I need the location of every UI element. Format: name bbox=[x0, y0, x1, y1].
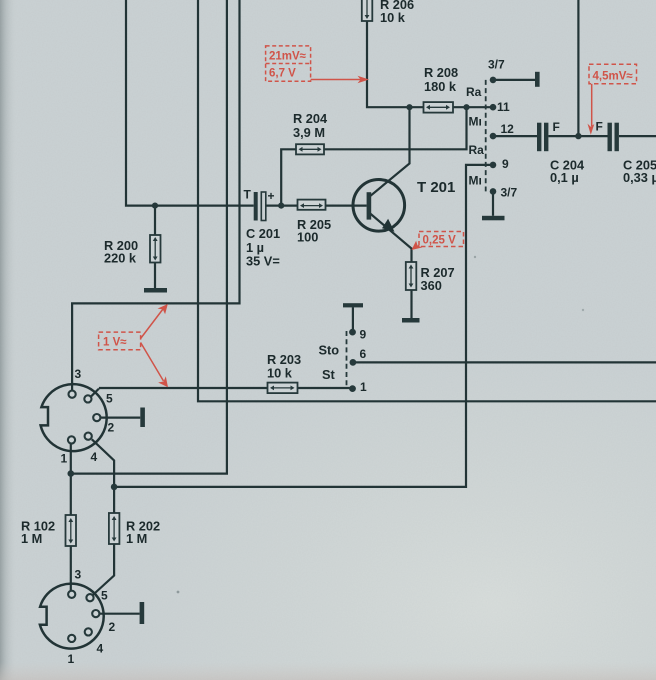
svg-text:5: 5 bbox=[101, 589, 108, 603]
switch S2 dashed actuator line bbox=[346, 331, 348, 389]
wire: switch2 contact 9 to open bar bbox=[352, 307, 354, 332]
svg-text:3/7: 3/7 bbox=[488, 58, 505, 72]
svg-text:100: 100 bbox=[297, 230, 318, 245]
wire: C204 to C205 node bbox=[548, 135, 607, 137]
wire: contact 12 to C204 bbox=[496, 135, 537, 137]
svg-text:180 k: 180 k bbox=[424, 79, 457, 94]
switch S2 contact 9 bbox=[349, 329, 356, 336]
wire: R102 to DIN2 pin3 bbox=[70, 546, 72, 591]
svg-text:2: 2 bbox=[108, 421, 115, 435]
ground (below R200) bbox=[144, 288, 167, 293]
svg-text:35 V=: 35 V= bbox=[246, 254, 280, 269]
switch S1 contact 11 bbox=[490, 104, 497, 111]
svg-text:4: 4 bbox=[97, 642, 104, 656]
svg-text:Mı: Mı bbox=[469, 174, 482, 188]
junction dot (collector node) bbox=[406, 104, 412, 110]
svg-text:12: 12 bbox=[501, 122, 515, 136]
svg-text:R 208: R 208 bbox=[424, 65, 458, 80]
wire: input node down to R200 bbox=[154, 206, 156, 235]
svg-text:R 204: R 204 bbox=[293, 111, 328, 126]
svg-text:21mV≈: 21mV≈ bbox=[269, 51, 307, 63]
wire: R202 to DIN2 pin5 bbox=[93, 544, 114, 595]
svg-text:6,7 V: 6,7 V bbox=[269, 68, 296, 80]
svg-text:T 201: T 201 bbox=[417, 179, 455, 196]
wire: vertical rail to bottom long bus bbox=[198, 0, 656, 401]
DIN connector Bu1 (top) bbox=[41, 384, 107, 451]
svg-text:0,25 V: 0,25 V bbox=[423, 235, 457, 247]
svg-text:Sto: Sto bbox=[319, 343, 340, 358]
svg-text:T: T bbox=[244, 188, 252, 202]
wire: vertical rail to DIN1 pin 3 bbox=[72, 0, 239, 391]
svg-text:6: 6 bbox=[360, 347, 367, 361]
svg-text:3,9 M: 3,9 M bbox=[293, 125, 325, 140]
svg-text:Ra: Ra bbox=[469, 143, 485, 157]
svg-text:9: 9 bbox=[360, 328, 367, 342]
svg-text:2: 2 bbox=[109, 620, 116, 634]
svg-text:1 M: 1 M bbox=[126, 531, 147, 546]
switch S1 contact 9 bbox=[490, 162, 497, 169]
svg-text:9: 9 bbox=[502, 157, 509, 171]
resistor R203 10k bbox=[268, 383, 298, 394]
red measurement 4,5mV with arrow bbox=[589, 64, 637, 126]
wire: R200 to ground bbox=[154, 263, 156, 289]
resistor R200 220k bbox=[150, 235, 161, 263]
switch S2 contact 6 (Sto) bbox=[350, 359, 357, 366]
svg-text:3: 3 bbox=[75, 367, 82, 381]
svg-text:1: 1 bbox=[61, 452, 68, 466]
wire: contact 3/7 bottom to ground bbox=[492, 191, 494, 215]
svg-text:1 V≈: 1 V≈ bbox=[103, 337, 127, 349]
svg-text:0,1 µ: 0,1 µ bbox=[550, 170, 579, 185]
wire: DIN1 pin4 lead to R202 bbox=[92, 439, 114, 513]
ground (below R207) bbox=[402, 318, 420, 323]
svg-text:360: 360 bbox=[421, 278, 442, 293]
chassis bar (DIN1 pin2) bbox=[140, 408, 145, 428]
wire: St contact 1 wire through R203 bbox=[99, 387, 350, 389]
red measurement 1V with arrows bbox=[99, 309, 164, 381]
wire: contact 6 to right edge bbox=[353, 361, 656, 363]
svg-text:C 201: C 201 bbox=[246, 226, 280, 241]
wire: C201 to base through R205 bbox=[265, 205, 366, 207]
junction dot (pin4/R202 node) bbox=[111, 484, 118, 491]
svg-text:10 k: 10 k bbox=[267, 366, 293, 381]
resistor R207 360 bbox=[406, 262, 417, 290]
switch S2 contact 1 (St) bbox=[349, 385, 356, 392]
svg-text:F: F bbox=[596, 120, 603, 134]
svg-text:1: 1 bbox=[360, 380, 367, 394]
svg-text:+: + bbox=[268, 189, 275, 203]
wire: DIN1 pin1 down to R102 bbox=[70, 444, 72, 515]
svg-text:4: 4 bbox=[91, 450, 98, 464]
wire: collector lead bbox=[370, 107, 410, 196]
svg-text:220 k: 220 k bbox=[104, 251, 137, 266]
svg-text:F: F bbox=[553, 120, 560, 134]
switch S1 dashed actuator line bbox=[485, 80, 487, 191]
scan specks bbox=[177, 591, 180, 594]
transistor T201 bbox=[353, 180, 405, 232]
resistor R206 10k bbox=[362, 0, 373, 21]
resistor R202 1M bbox=[109, 513, 120, 544]
svg-text:3/7: 3/7 bbox=[501, 186, 518, 200]
switch S1 contact 3/7 bottom bbox=[490, 188, 497, 195]
wire: R207 to ground bbox=[410, 290, 412, 318]
wire: R204 branch from input node bbox=[281, 149, 296, 205]
resistor R205 100 bbox=[298, 200, 326, 210]
wire: contact 9 down to pin4 node bbox=[117, 165, 490, 487]
DIN connector Bu2 (bottom) bbox=[40, 584, 104, 649]
wire: DIN2 pin2 to chassis bbox=[100, 613, 140, 615]
svg-text:Mı: Mı bbox=[469, 115, 482, 129]
svg-text:3: 3 bbox=[75, 568, 82, 582]
capacitor C201 1u electrolytic bbox=[254, 192, 266, 221]
svg-text:4,5mV≈: 4,5mV≈ bbox=[593, 70, 634, 82]
chassis bar (3/7 top) bbox=[535, 72, 540, 87]
resistor R102 1M bbox=[66, 515, 77, 546]
svg-text:1 M: 1 M bbox=[21, 531, 42, 546]
svg-text:11: 11 bbox=[497, 100, 510, 114]
capacitor C205 0,33u bbox=[608, 123, 619, 152]
red measurement 0,25V with arrow bbox=[416, 232, 464, 248]
resistor R208 180k bbox=[424, 102, 454, 113]
wire: contact 3/7 to chassis bbox=[493, 79, 535, 81]
svg-text:Ra: Ra bbox=[466, 85, 482, 99]
resistor R204 3,9M bbox=[296, 144, 324, 154]
wire: DIN1 pin2 to chassis bbox=[101, 417, 141, 419]
capacitor C204 0,1u bbox=[537, 123, 548, 152]
switch S1 contact 3/7 top bbox=[490, 77, 497, 84]
junction dot (R204/R208 node) bbox=[463, 104, 469, 110]
wire: output rail down to C204/C205 node bbox=[577, 0, 579, 133]
switch S1 contact 12 bbox=[490, 133, 497, 140]
junction dot (C201 input node) bbox=[152, 203, 158, 209]
junction dot (C204/C205 node) bbox=[575, 133, 581, 139]
junction dot (base node) bbox=[278, 203, 284, 209]
wire: R206 to collector node rail bbox=[367, 21, 490, 107]
svg-text:10 k: 10 k bbox=[380, 10, 406, 25]
svg-text:0,33 µ: 0,33 µ bbox=[623, 170, 656, 185]
wire: emitter lead bbox=[370, 213, 412, 262]
svg-text:1: 1 bbox=[68, 652, 75, 666]
open contact bar (above switch S2 contact 9) bbox=[343, 303, 363, 307]
ground (below 3/7) bbox=[482, 216, 505, 221]
chassis bar (DIN2 pin2) bbox=[140, 602, 145, 624]
wire: R204 to collector rail bbox=[324, 107, 467, 149]
junction dot (pin1/R102 node) bbox=[68, 470, 75, 477]
svg-text:5: 5 bbox=[106, 392, 113, 406]
wire: C205 to right edge bbox=[619, 135, 656, 137]
red measurement 21mV / 6,7V with arrow bbox=[266, 46, 362, 81]
wire: supply rail 1 down to C201 input node bbox=[126, 0, 254, 206]
wire: vertical rail to pin1 junction bbox=[71, 0, 227, 474]
svg-text:St: St bbox=[322, 367, 336, 382]
wire: DIN1 pin5 lead bbox=[91, 389, 99, 397]
